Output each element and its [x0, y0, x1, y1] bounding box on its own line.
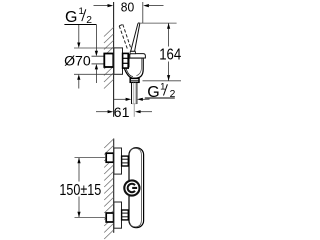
outlet pipe axis extension line (for 61 dim): [132, 103, 137, 105]
body inner contour (lower view): [130, 148, 142, 227]
wall hatching (lower view): [104, 139, 113, 239]
label G 1/2 (shower outlet): [145, 81, 176, 100]
dimension 61 (wall to outlet axis): [96, 105, 152, 120]
label G 1/2 (top left): [64, 6, 96, 26]
union nut top (lower view): [122, 156, 129, 166]
svg-text:61: 61: [114, 105, 130, 120]
supply block top (lower view): [106, 153, 113, 162]
supply block bottom (lower view): [106, 213, 113, 222]
outlet collar: [130, 78, 139, 82]
mixer body shell (upper view): [124, 58, 143, 78]
supply pipe behind wall (upper view): [92, 56, 105, 64]
svg-text:80: 80: [121, 0, 134, 15]
Ø70 dimension upper arrow: [77, 24, 80, 48]
dimension 164 (lever tip to outlet axis): [139, 23, 182, 81]
extension line top of Ø70: [74, 47, 114, 49]
supply fitting block at wall (upper view): [104, 54, 113, 68]
G1/2 outlet leader arrows: [114, 98, 150, 101]
escutcheon bottom (lower view): [114, 202, 122, 228]
dimension 80 (wall to lever tip): [94, 0, 164, 23]
outlet pipe (G 1/2 shower outlet): [132, 83, 137, 104]
svg-text:G: G: [65, 9, 77, 26]
Ø70 dimension lower arrow: [77, 74, 80, 88]
svg-text:164: 164: [159, 47, 181, 64]
escutcheon (upper view): [114, 48, 123, 74]
extension line bottom of Ø70: [74, 73, 114, 75]
dimension 150±15 (connection spacing): [59, 158, 106, 218]
GROHE emblem on body: [124, 180, 139, 195]
wall face line (upper view, also extension line for 80 and 61 dims): [113, 2, 115, 117]
body inlet arm inner curve: [126, 67, 133, 76]
svg-text:Ø70: Ø70: [64, 53, 91, 69]
cap left dark end: [128, 54, 130, 59]
svg-text:1: 1: [79, 6, 84, 17]
union nut bottom (lower view): [122, 210, 129, 220]
wall face line (lower view): [113, 139, 115, 233]
lever handle (dashed alternate position): [119, 24, 131, 49]
escutcheon top (lower view): [114, 148, 122, 174]
svg-text:150±15: 150±15: [59, 182, 101, 199]
lever handle (solid position): [130, 51, 136, 54]
mixer body cap (upper view): [130, 54, 146, 58]
wall hatching (upper view): [104, 28, 113, 89]
mixer body capsule (lower view): [129, 148, 144, 228]
body inner contour: [136, 59, 141, 76]
G1/2 leader upper arrow to pipe: [95, 24, 98, 56]
G1/2 leader lower arrow to pipe: [95, 64, 98, 83]
union nut (upper view): [123, 53, 129, 68]
